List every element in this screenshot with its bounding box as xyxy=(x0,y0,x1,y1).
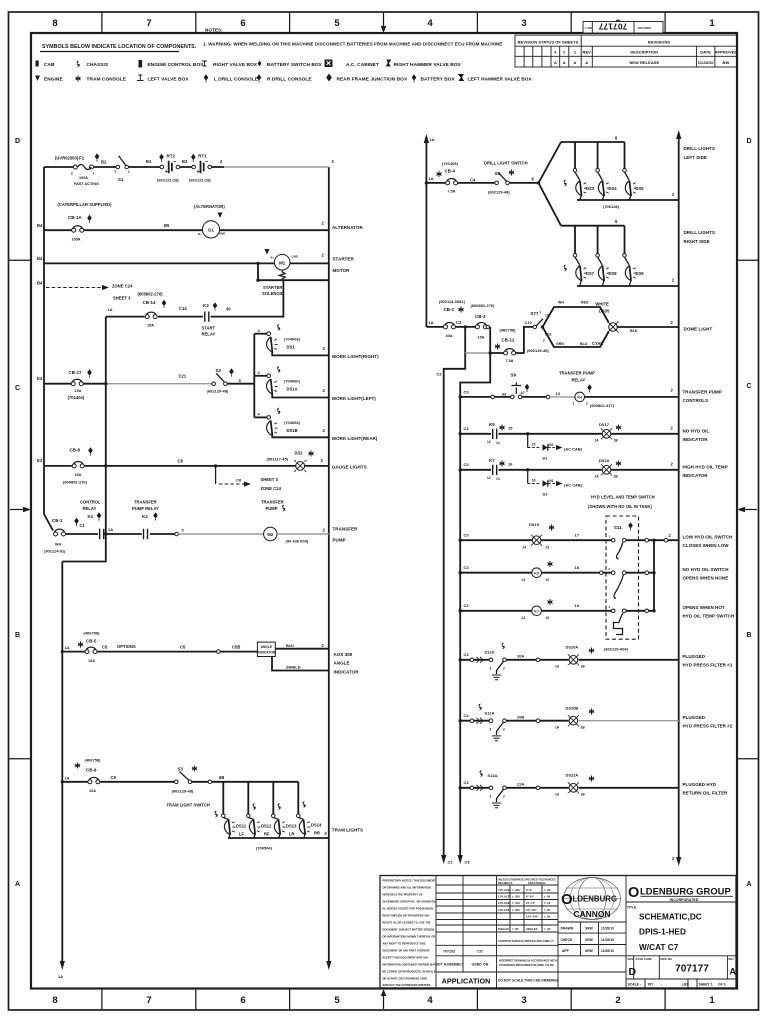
alternator G1 xyxy=(202,221,219,238)
svg-text:LF: LF xyxy=(239,832,245,837)
svg-text:C4: C4 xyxy=(470,178,476,183)
junction zone exit xyxy=(214,464,217,467)
svg-text:B: B xyxy=(15,632,20,639)
svg-text:2: 2 xyxy=(503,728,505,732)
svg-text:OR DRAWING AND ALL INFORMATION: OR DRAWING AND ALL INFORMATION xyxy=(383,886,432,890)
svg-text:DRAWN: DRAWN xyxy=(561,927,574,931)
breaker CB-9 xyxy=(88,777,100,783)
left center arrow xyxy=(10,509,24,511)
svg-text:S11A: S11A xyxy=(485,650,495,655)
svg-text:2 PLACE: 2 PLACE xyxy=(498,901,510,905)
svg-text:BE COPIED OR REPRODUCED, IN WH: BE COPIED OR REPRODUCED, IN WHOLE xyxy=(383,970,436,974)
svg-text:2: 2 xyxy=(115,170,117,174)
svg-text:CHECK: CHECK xyxy=(561,938,574,942)
svg-text:NO HYD OIL: NO HYD OIL xyxy=(683,429,710,434)
svg-text:C2: C2 xyxy=(448,860,454,865)
svg-text:OR INFORMATION SHOWN THEREON,: OR INFORMATION SHOWN THEREON, OR xyxy=(383,935,436,939)
svg-text:GAUGE LIGHTS: GAUGE LIGHTS xyxy=(332,465,367,470)
svg-text:HYD LEVEL AND TEMP SWITCH: HYD LEVEL AND TEMP SWITCH xyxy=(591,495,655,500)
svg-text:DS3: DS3 xyxy=(586,186,595,191)
wire xyxy=(460,572,654,574)
svg-text:± .50: ± .50 xyxy=(544,915,551,919)
lamp DS18 xyxy=(601,464,612,475)
svg-text:DATE: DATE xyxy=(700,50,711,55)
lamp DS20B xyxy=(568,715,579,726)
svg-text:7: 7 xyxy=(146,995,151,1006)
svg-text:O: O xyxy=(628,885,639,901)
svg-text:2: 2 xyxy=(586,402,588,406)
svg-text:MOTOR: MOTOR xyxy=(333,268,351,273)
svg-text:1A: 1A xyxy=(65,777,70,781)
svg-text:TRAM LIGHT SWITCH: TRAM LIGHT SWITCH xyxy=(167,803,210,808)
relay contact K1 xyxy=(100,529,104,539)
wire to rail xyxy=(585,396,679,398)
svg-text:ENGINE CONTROL BOX: ENGINE CONTROL BOX xyxy=(148,62,205,68)
wire xyxy=(62,651,257,653)
svg-text:CAB: CAB xyxy=(44,62,55,68)
junction CB-12 feed xyxy=(489,351,492,354)
svg-text:HYD PRESS FILTER #2: HYD PRESS FILTER #2 xyxy=(683,724,733,729)
relay coil K9 xyxy=(532,568,542,578)
svg-text:ON DWG: ON DWG xyxy=(638,26,652,30)
svg-text:A: A xyxy=(585,60,588,65)
angle indicator box xyxy=(257,642,275,656)
svg-text:E4: E4 xyxy=(37,376,43,381)
wire xyxy=(460,539,679,541)
svg-text:CONTROLS: CONTROLS xyxy=(683,398,709,403)
svg-text:(AC CAB): (AC CAB) xyxy=(564,483,583,488)
svg-text:6B: 6B xyxy=(219,775,224,780)
svg-text:DS35: DS35 xyxy=(599,309,610,314)
svg-text:8: 8 xyxy=(52,18,57,29)
svg-text:PUMP: PUMP xyxy=(333,538,346,543)
svg-text:W4: W4 xyxy=(55,542,62,547)
svg-text:LEFT HAMMER VALVE BOX: LEFT HAMMER VALVE BOX xyxy=(468,77,533,83)
wire to rail xyxy=(611,433,679,435)
svg-text:RIGHT SIDE: RIGHT SIDE xyxy=(684,239,710,244)
svg-text:1A: 1A xyxy=(595,475,600,479)
svg-text:12: 12 xyxy=(487,440,491,444)
svg-text:M2: M2 xyxy=(267,532,274,537)
svg-text:RETURN OIL FILTER: RETURN OIL FILTER xyxy=(683,791,729,796)
svg-text:DESCRIPTION: DESCRIPTION xyxy=(630,50,658,55)
svg-text:29: 29 xyxy=(546,546,550,550)
svg-text:A: A xyxy=(574,60,577,65)
svg-text:C3: C3 xyxy=(464,426,470,431)
switch S13A w/ ground xyxy=(489,786,493,790)
svg-text:16: 16 xyxy=(508,462,513,467)
svg-text:± .010: ± .010 xyxy=(512,901,520,905)
svg-text:7.5A: 7.5A xyxy=(448,190,456,194)
svg-text:D: D xyxy=(746,138,751,145)
svg-text:105A: 105A xyxy=(72,238,81,242)
svg-text:PUMP RELAY: PUMP RELAY xyxy=(132,506,159,511)
svg-text:18: 18 xyxy=(575,565,580,570)
svg-text:W/CAT C7: W/CAT C7 xyxy=(639,943,679,952)
svg-text:(704060): (704060) xyxy=(284,379,301,384)
svg-text:DS5: DS5 xyxy=(636,186,645,191)
svg-text:B5: B5 xyxy=(164,223,170,228)
svg-text:STARTER: STARTER xyxy=(263,285,282,290)
breaker CB-5 xyxy=(85,647,97,653)
breaker CB-8 xyxy=(72,461,84,467)
wire xyxy=(426,182,538,184)
tram lamp drops xyxy=(223,782,298,814)
lamp DS8 xyxy=(597,226,599,254)
wire xyxy=(460,659,679,661)
svg-text:CB-27: CB-27 xyxy=(69,370,82,375)
connector xyxy=(546,395,550,399)
svg-text:FRACTIONAL: FRACTIONAL xyxy=(528,881,546,885)
svg-text:TRAM LIGHTS: TRAM LIGHTS xyxy=(332,828,363,833)
zone numbers bottom xyxy=(52,995,715,1006)
svg-text:(700504): (700504) xyxy=(256,846,273,851)
starter solenoid coil xyxy=(279,270,285,280)
diode D1 xyxy=(543,444,548,450)
svg-text:OLDENBURG GROUP INC. OR ADVANC: OLDENBURG GROUP INC. OR ADVANCED xyxy=(383,900,436,904)
svg-text:S77: S77 xyxy=(531,311,539,316)
wire xyxy=(460,610,654,612)
svg-text:15A: 15A xyxy=(478,336,485,340)
wire xyxy=(66,533,175,535)
svg-text:FAST ACTING: FAST ACTING xyxy=(74,182,99,186)
svg-text:DS1: DS1 xyxy=(287,345,296,350)
junction xyxy=(104,464,107,467)
wire xyxy=(44,229,329,231)
fan wires to lamp buses xyxy=(539,142,562,226)
svg-text:C1: C1 xyxy=(80,523,86,528)
svg-text:K3: K3 xyxy=(203,303,209,308)
lamp DS13 xyxy=(273,818,278,820)
junction xyxy=(104,382,107,385)
relay contact K7 xyxy=(493,465,497,475)
svg-text:1: 1 xyxy=(128,170,130,174)
svg-text:ZONE C24: ZONE C24 xyxy=(261,486,282,491)
svg-text:SIZE: SIZE xyxy=(628,957,634,961)
switch S11A w/ ground xyxy=(489,658,493,662)
svg-text:RIGHT HAMMER VALVE BOX: RIGHT HAMMER VALVE BOX xyxy=(394,62,462,68)
svg-text:START: START xyxy=(202,326,216,331)
relay contact K9 xyxy=(493,429,497,439)
svg-text:11/28/10: 11/28/10 xyxy=(601,949,614,953)
svg-text:K9: K9 xyxy=(534,571,539,575)
S11 dashed box xyxy=(606,516,639,639)
svg-text:HEREON IS THE PROPERTY OF: HEREON IS THE PROPERTY OF xyxy=(383,893,423,897)
feed wire 1A vertical xyxy=(425,141,427,327)
svg-text:30A: 30A xyxy=(446,334,453,338)
svg-text:WORK LIGHT(REAR): WORK LIGHT(REAR) xyxy=(332,436,378,441)
junction 1A xyxy=(104,532,107,535)
svg-text:NEW RELEASE: NEW RELEASE xyxy=(629,60,659,65)
svg-text:(600802-276): (600802-276) xyxy=(63,480,88,485)
starter motor M1 xyxy=(274,254,290,270)
svg-text:707177: 707177 xyxy=(675,964,709,975)
svg-text:BATTERY SWITCH BOX: BATTERY SWITCH BOX xyxy=(267,62,323,68)
svg-text:B+: B+ xyxy=(271,256,275,260)
lamp DS9 xyxy=(624,226,626,254)
svg-text:6: 6 xyxy=(240,995,245,1006)
svg-text:DRILL LIGHTS: DRILL LIGHTS xyxy=(684,146,716,151)
svg-text:BW: BW xyxy=(723,60,730,65)
svg-text:ANGLES: ANGLES xyxy=(498,927,510,931)
feed wire C2 vertical xyxy=(444,327,466,857)
svg-text:B1: B1 xyxy=(146,159,152,164)
zone numbers top xyxy=(52,18,715,29)
svg-text:(502117-45): (502117-45) xyxy=(267,457,289,462)
svg-text:ALTERNATOR: ALTERNATOR xyxy=(332,225,363,230)
svg-text:CB-12: CB-12 xyxy=(502,338,515,343)
svg-text:S9: S9 xyxy=(511,373,517,378)
shield wire xyxy=(272,657,329,671)
svg-text:C3: C3 xyxy=(464,565,470,570)
svg-text:E4: E4 xyxy=(37,458,43,463)
relay coil K7 xyxy=(532,606,542,616)
svg-text:BLK: BLK xyxy=(630,329,638,333)
svg-text:NOT ASSEMBLY: NOT ASSEMBLY xyxy=(435,963,464,967)
svg-text:DO NOT SCALE THIS CAD DRAWING: DO NOT SCALE THIS CAD DRAWING xyxy=(498,979,558,983)
svg-text:DS19: DS19 xyxy=(529,522,540,527)
svg-text:DS2: DS2 xyxy=(295,451,304,456)
svg-text:2: 2 xyxy=(615,995,620,1006)
svg-text:1: 1 xyxy=(709,18,715,29)
svg-text:2: 2 xyxy=(543,339,545,343)
relay coil K4 xyxy=(575,392,585,402)
svg-text:PLUGGED: PLUGGED xyxy=(683,715,706,720)
svg-text:RT1: RT1 xyxy=(198,154,207,159)
svg-text:C5: C5 xyxy=(180,645,186,650)
svg-text:RF: RF xyxy=(264,832,270,837)
svg-text:(706128): (706128) xyxy=(603,204,620,209)
svg-text:1B: 1B xyxy=(614,439,619,443)
return bus left side xyxy=(577,199,679,201)
svg-text:SHIELD: SHIELD xyxy=(286,665,301,670)
svg-text:HYD OIL TEMP SWITCH: HYD OIL TEMP SWITCH xyxy=(683,614,735,619)
svg-text:1A: 1A xyxy=(58,974,63,979)
svg-text:RELAY: RELAY xyxy=(83,506,97,511)
svg-text:B+: B+ xyxy=(198,232,202,236)
svg-text:HIGH HYD OIL TEMP: HIGH HYD OIL TEMP xyxy=(683,465,728,470)
legend row 1 xyxy=(36,60,462,69)
junction xyxy=(256,262,259,265)
junction diode branch xyxy=(526,432,529,435)
svg-text:1 PLACE: 1 PLACE xyxy=(498,895,510,899)
svg-text:1A: 1A xyxy=(429,176,434,181)
lamp DS14 xyxy=(298,818,303,820)
svg-text:3: 3 xyxy=(521,995,526,1006)
svg-text:11/28/10: 11/28/10 xyxy=(698,60,714,65)
svg-text:TRANSFER PUMP: TRANSFER PUMP xyxy=(683,390,722,395)
fuse F1 xyxy=(73,165,77,169)
wire xyxy=(44,383,106,385)
svg-text:SYMBOLS BELOW INDICATE LOCATIO: SYMBOLS BELOW INDICATE LOCATION OF COMPO… xyxy=(42,44,197,50)
svg-text:TRANSFER PUMP: TRANSFER PUMP xyxy=(559,371,595,376)
svg-text:± 1/4°: ± 1/4° xyxy=(544,927,551,931)
svg-text:INDICATOR: INDICATOR xyxy=(257,651,276,655)
svg-text:S13A: S13A xyxy=(488,773,498,778)
svg-text:S2: S2 xyxy=(216,368,222,373)
svg-text:5: 5 xyxy=(334,18,340,29)
svg-text:SRW: SRW xyxy=(585,949,594,953)
svg-text:SRW: SRW xyxy=(585,927,594,931)
tram lamp return bus xyxy=(228,837,329,839)
svg-text:APPLICATION: APPLICATION xyxy=(442,977,491,986)
svg-text:001: 001 xyxy=(548,443,554,447)
lower rail bottom arrow xyxy=(60,961,65,970)
lamp DS7 xyxy=(574,226,576,254)
svg-text:TRANSFER: TRANSFER xyxy=(134,500,157,505)
svg-text:(704003): (704003) xyxy=(284,337,301,342)
svg-text:15A: 15A xyxy=(75,473,82,477)
svg-text:1B: 1B xyxy=(581,665,586,669)
svg-text:(602121-28): (602121-28) xyxy=(157,178,179,183)
lamp DS3 xyxy=(574,142,576,169)
svg-text:(701404): (701404) xyxy=(68,395,85,400)
svg-text:INFORMATION CONTAINED THEREIN: INFORMATION CONTAINED THEREIN MAY xyxy=(383,963,436,967)
svg-text:10A: 10A xyxy=(89,789,96,793)
svg-text:DS13: DS13 xyxy=(286,824,297,829)
breaker CB-3 xyxy=(475,322,487,328)
svg-text:C: C xyxy=(746,383,751,390)
svg-text:1B: 1B xyxy=(614,475,619,479)
svg-text:15A: 15A xyxy=(75,389,82,393)
right rail left-half (wire 2) xyxy=(328,167,330,963)
connector xyxy=(217,650,221,654)
work light distribution bus xyxy=(253,334,255,418)
svg-text:A: A xyxy=(15,881,20,888)
svg-text:CONTROL: CONTROL xyxy=(80,500,101,505)
svg-text:DS22A: DS22A xyxy=(566,773,579,778)
svg-text:100A: 100A xyxy=(79,176,88,180)
svg-text:14: 14 xyxy=(522,578,526,582)
wire xyxy=(44,166,224,168)
bottom center arrow xyxy=(383,995,385,1009)
switch S12A w/ ground xyxy=(489,719,493,723)
svg-text:3 PLACE: 3 PLACE xyxy=(498,908,510,912)
svg-text:DPIS-1-HED: DPIS-1-HED xyxy=(639,928,686,937)
svg-text:15: 15 xyxy=(508,426,513,431)
svg-text:± .060: ± .060 xyxy=(512,888,520,892)
svg-text:22A: 22A xyxy=(517,782,524,787)
svg-text:(602129-46): (602129-46) xyxy=(527,348,549,353)
relay contact K3 xyxy=(205,312,209,322)
svg-text:ANGLE: ANGLE xyxy=(334,661,350,666)
svg-text:BATTERY BOX: BATTERY BOX xyxy=(421,77,456,83)
svg-text:LR: LR xyxy=(289,832,295,837)
svg-text:30: 30 xyxy=(226,307,231,312)
svg-text:C3: C3 xyxy=(464,780,470,785)
svg-text:CB-4: CB-4 xyxy=(445,169,456,174)
svg-text:LDENBURG GROUP: LDENBURG GROUP xyxy=(640,886,731,897)
lamp DS11 xyxy=(223,818,228,820)
svg-text:DS17: DS17 xyxy=(599,422,609,427)
svg-text:12: 12 xyxy=(487,476,491,480)
svg-text:DS1B: DS1B xyxy=(287,428,298,433)
lamp DS5 xyxy=(624,142,626,169)
switch S1 xyxy=(116,165,120,169)
svg-text:1. WARNING: WHEN WELDING ON TH: 1. WARNING: WHEN WELDING ON THIS MACHINE… xyxy=(203,42,502,47)
svg-text:RT2: RT2 xyxy=(167,154,176,159)
svg-text:± .030: ± .030 xyxy=(512,895,520,899)
svg-text:± .25: ± .25 xyxy=(544,908,551,912)
svg-text:M1: M1 xyxy=(279,260,286,265)
relay contact K4 xyxy=(144,529,148,539)
svg-text:OPTIONS: OPTIONS xyxy=(117,644,136,649)
svg-text:LBS: LBS xyxy=(682,983,689,987)
drill lights left side bus xyxy=(561,141,625,143)
svg-text:C8: C8 xyxy=(178,459,184,464)
svg-text:1 NO: 1 NO xyxy=(585,26,593,30)
svg-text:C3: C3 xyxy=(465,860,471,865)
svg-text:C3: C3 xyxy=(464,603,470,608)
svg-text:(90 436 008): (90 436 008) xyxy=(286,539,309,544)
lamp DS1A output wire xyxy=(272,394,329,397)
svg-text:10A: 10A xyxy=(88,659,95,663)
svg-text:DOCUMENT OR ANY PART THEREOF,: DOCUMENT OR ANY PART THEREOF, xyxy=(383,949,431,953)
svg-text:BLU: BLU xyxy=(580,342,588,346)
breaker CB-14 xyxy=(145,312,157,318)
S11 pole 3 temp xyxy=(611,609,615,613)
svg-text:G1: G1 xyxy=(208,228,214,233)
svg-text:GND: GND xyxy=(219,232,225,236)
svg-text:REV: REV xyxy=(583,50,592,55)
branch DS1B xyxy=(254,416,267,418)
svg-text:CAGE CODE: CAGE CODE xyxy=(636,957,652,961)
connector xyxy=(175,532,179,536)
svg-text:1A: 1A xyxy=(555,793,560,797)
temp sensor squiggle xyxy=(614,613,623,635)
svg-text:001: 001 xyxy=(548,479,554,483)
lamp DS12 xyxy=(248,818,253,820)
svg-text:CONTOUR SURFACE PROFILE PER AS: CONTOUR SURFACE PROFILE PER ASME (*) xyxy=(498,940,554,943)
svg-text:SRW: SRW xyxy=(585,938,594,942)
svg-text:16: 16 xyxy=(532,479,536,483)
wire BLK to rail xyxy=(275,648,329,650)
svg-text:ANGLE: ANGLE xyxy=(261,645,272,649)
return bus right side xyxy=(577,285,679,287)
svg-text:EXCEPT THIS DOCUMENT NOR ANY: EXCEPT THIS DOCUMENT NOR ANY xyxy=(383,956,429,960)
svg-text:CYAN: CYAN xyxy=(592,341,603,346)
wire xyxy=(106,280,284,316)
svg-text:C21: C21 xyxy=(179,374,187,379)
svg-text:1A: 1A xyxy=(555,665,560,669)
svg-text:2: 2 xyxy=(503,795,505,799)
junction diode branch xyxy=(526,468,529,471)
svg-text:3: 3 xyxy=(490,728,492,732)
svg-text:(902114-0081): (902114-0081) xyxy=(439,299,466,304)
svg-text:DS11: DS11 xyxy=(236,824,247,829)
svg-text:DS7: DS7 xyxy=(586,271,595,276)
wire xyxy=(426,326,490,328)
svg-text:ZONE C24: ZONE C24 xyxy=(112,284,133,289)
oldenburg group header xyxy=(628,885,733,902)
svg-text:AOS 300: AOS 300 xyxy=(334,652,353,657)
wire to rail xyxy=(277,533,329,535)
svg-text:WITHOUT THE EXPRESSED WRITTEN: WITHOUT THE EXPRESSED WRITTEN xyxy=(383,983,431,987)
svg-text:(UVR02550): (UVR02550) xyxy=(55,156,79,161)
svg-text:K7: K7 xyxy=(534,610,539,614)
svg-text:(ALTERNATOR): (ALTERNATOR) xyxy=(194,204,225,209)
drawn/check/app rows xyxy=(561,927,615,954)
svg-text:(602129-48): (602129-48) xyxy=(207,388,229,393)
svg-text:C2: C2 xyxy=(437,372,443,377)
junction node 6 xyxy=(537,181,540,184)
svg-text:DS20B: DS20B xyxy=(566,706,579,711)
svg-text:1A: 1A xyxy=(430,137,435,142)
svg-text:TRAM CONSOLE: TRAM CONSOLE xyxy=(87,77,127,83)
svg-text:C3: C3 xyxy=(464,462,470,467)
svg-text:S12A: S12A xyxy=(485,711,495,716)
svg-text:(602129-48): (602129-48) xyxy=(172,789,194,794)
